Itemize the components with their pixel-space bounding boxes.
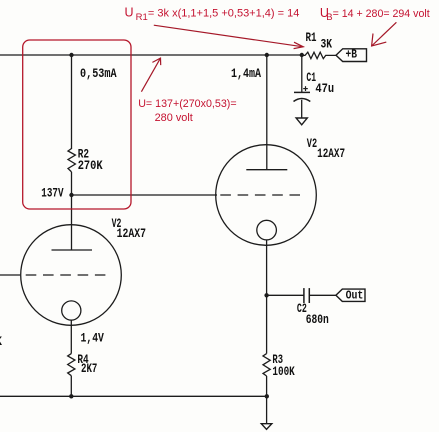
svg-text:2K7: 2K7 xyxy=(81,362,97,376)
svg-text:270K: 270K xyxy=(78,159,103,173)
svg-text:= 3k x(1,1+1,5 +0,53+1,4) = 14: = 3k x(1,1+1,5 +0,53+1,4) = 14 xyxy=(148,8,300,20)
triode V2 (right) plate xyxy=(246,169,287,171)
annotation arrow from U=137 to rail xyxy=(141,58,160,92)
annotation formula U B top right xyxy=(320,6,430,23)
wire C2 to Out tag xyxy=(309,294,336,296)
wire rail down to right tube plate xyxy=(266,55,268,170)
wire C1 to ground xyxy=(301,100,303,118)
triode V2 (left) cathode circle xyxy=(62,301,81,320)
label R4 xyxy=(77,353,89,367)
label Out xyxy=(346,289,364,302)
label 12AX7 (left) xyxy=(117,227,146,241)
svg-text:3K: 3K xyxy=(321,38,333,52)
power tag +B outline xyxy=(336,49,367,62)
resistor R4 xyxy=(68,354,75,376)
label 1,4V xyxy=(81,332,105,346)
ground (under C1) xyxy=(296,118,307,125)
wire R3 to bottom junction and ground xyxy=(266,376,268,423)
wire R4 to bottom rail xyxy=(70,376,72,397)
label 47u xyxy=(315,82,334,96)
svg-text:R1: R1 xyxy=(306,31,317,45)
svg-text:1,4mA: 1,4mA xyxy=(231,67,261,81)
triode V2 (left) grid dashes xyxy=(26,274,106,276)
capacitor C1 top plate xyxy=(294,91,310,93)
label V2 (right) xyxy=(307,137,317,151)
node rail to C1/R1 junction xyxy=(300,53,304,57)
annotation formula U=137 xyxy=(138,98,236,124)
wire junction to C2 left plate xyxy=(267,294,304,296)
svg-text:+B: +B xyxy=(346,48,358,61)
label 680n xyxy=(306,313,329,327)
wire rail junction down to C1 xyxy=(301,55,303,92)
svg-text:V2: V2 xyxy=(307,137,317,151)
annotation arrow to +B tag xyxy=(372,22,397,46)
annotation arrow to R1 xyxy=(154,25,303,48)
label 0,53mA xyxy=(80,67,117,81)
annotation formula U R1 top xyxy=(125,6,300,24)
label C1 xyxy=(306,71,316,85)
wire left tube grid stub to left edge xyxy=(0,274,20,276)
label 1,4mA xyxy=(231,67,261,81)
wire right cathode down to R3 xyxy=(266,240,268,354)
label 12AX7 (right) xyxy=(317,147,345,161)
label +B xyxy=(346,48,358,61)
capacitor C1 plus sign xyxy=(303,86,308,91)
resistor R1 xyxy=(302,52,336,58)
triode V2 (right) envelope xyxy=(216,145,317,246)
node rail to right tube plate junction xyxy=(265,53,269,57)
svg-text:100K: 100K xyxy=(272,365,295,379)
output tag Out outline xyxy=(336,289,365,301)
wire left branch from rail to R2 xyxy=(71,55,73,149)
partial letter at left edge xyxy=(0,335,3,349)
label V2 (left) xyxy=(112,217,122,231)
label C2 xyxy=(297,302,307,316)
resistor R2 xyxy=(68,149,75,172)
svg-text:680n: 680n xyxy=(306,313,329,327)
svg-text:U= 137+(270x0,53)=: U= 137+(270x0,53)= xyxy=(138,98,236,110)
ground (bottom right) xyxy=(261,424,272,430)
node R3 to bottom rail junction xyxy=(265,394,269,398)
svg-text:U: U xyxy=(125,6,134,20)
svg-text:280 volt: 280 volt xyxy=(155,112,193,124)
node cathode to C2 junction xyxy=(264,293,268,297)
annotation red box around R2 branch xyxy=(23,40,131,209)
svg-text:R1: R1 xyxy=(136,12,148,23)
svg-text:137V: 137V xyxy=(41,187,64,201)
wire top B+ rail xyxy=(0,54,302,56)
label R1 xyxy=(306,31,317,45)
svg-text:Out: Out xyxy=(346,289,364,302)
triode V2 (right) grid dashes xyxy=(220,194,300,196)
label R2 xyxy=(78,148,89,162)
svg-text:1,4V: 1,4V xyxy=(81,332,105,346)
node 137V junction xyxy=(69,193,73,197)
svg-text:47u: 47u xyxy=(315,82,334,96)
svg-text:= 14 + 280= 294 volt: = 14 + 280= 294 volt xyxy=(333,8,430,20)
resistor R3 xyxy=(263,354,270,376)
capacitor C2 plates xyxy=(304,288,309,303)
node rail to R2 junction xyxy=(69,53,73,57)
label 3K xyxy=(321,38,333,52)
triode V2 (right) cathode circle xyxy=(257,220,277,240)
triode V2 (left) plate xyxy=(52,249,93,251)
wire R2 to 137V node and into left tube plate xyxy=(71,172,73,250)
svg-text:12AX7: 12AX7 xyxy=(117,227,146,241)
svg-text:12AX7: 12AX7 xyxy=(317,147,345,161)
triode V2 (left) envelope xyxy=(21,225,122,326)
wire left cathode down to R4 xyxy=(70,320,72,354)
wire bottom ground rail xyxy=(0,395,267,397)
label 270K xyxy=(78,159,103,173)
node R4 to bottom rail junction xyxy=(69,394,73,398)
label 100K xyxy=(272,365,295,379)
label 137V xyxy=(41,187,64,201)
wire 137V node to right tube grid xyxy=(72,194,218,196)
label 2K7 xyxy=(81,362,97,376)
svg-text:0,53mA: 0,53mA xyxy=(80,67,117,81)
capacitor C1 bottom curved plate xyxy=(294,99,311,102)
label R3 xyxy=(272,353,283,367)
